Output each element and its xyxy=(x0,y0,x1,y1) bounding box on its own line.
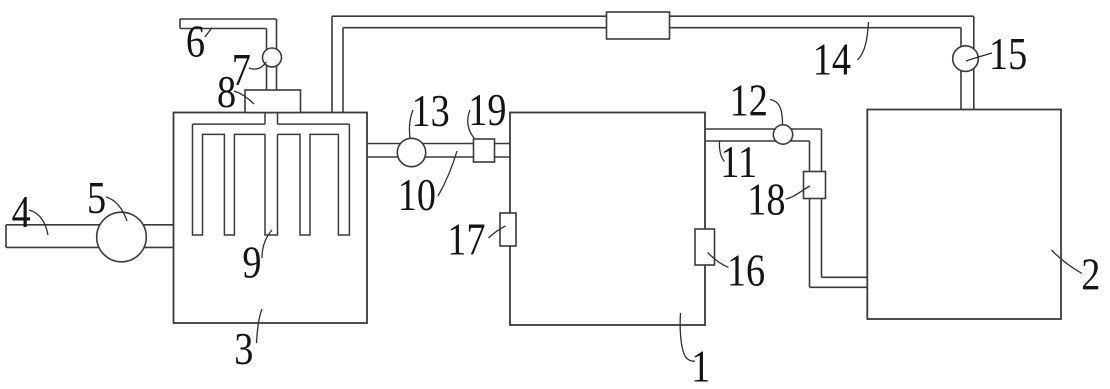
svg-text:2: 2 xyxy=(1081,251,1100,301)
svg-text:5: 5 xyxy=(87,174,106,224)
svg-text:15: 15 xyxy=(989,30,1027,80)
svg-text:6: 6 xyxy=(186,18,205,68)
svg-text:14: 14 xyxy=(813,36,851,86)
svg-text:16: 16 xyxy=(727,247,765,297)
svg-text:18: 18 xyxy=(747,176,785,226)
svg-text:17: 17 xyxy=(447,216,485,266)
svg-text:4: 4 xyxy=(12,188,31,238)
svg-text:10: 10 xyxy=(398,171,436,221)
svg-text:8: 8 xyxy=(217,68,236,118)
svg-text:1: 1 xyxy=(691,343,710,384)
svg-text:13: 13 xyxy=(412,87,450,137)
svg-text:3: 3 xyxy=(234,325,253,375)
svg-text:19: 19 xyxy=(468,86,506,136)
svg-text:12: 12 xyxy=(730,77,768,127)
svg-text:9: 9 xyxy=(242,239,261,289)
